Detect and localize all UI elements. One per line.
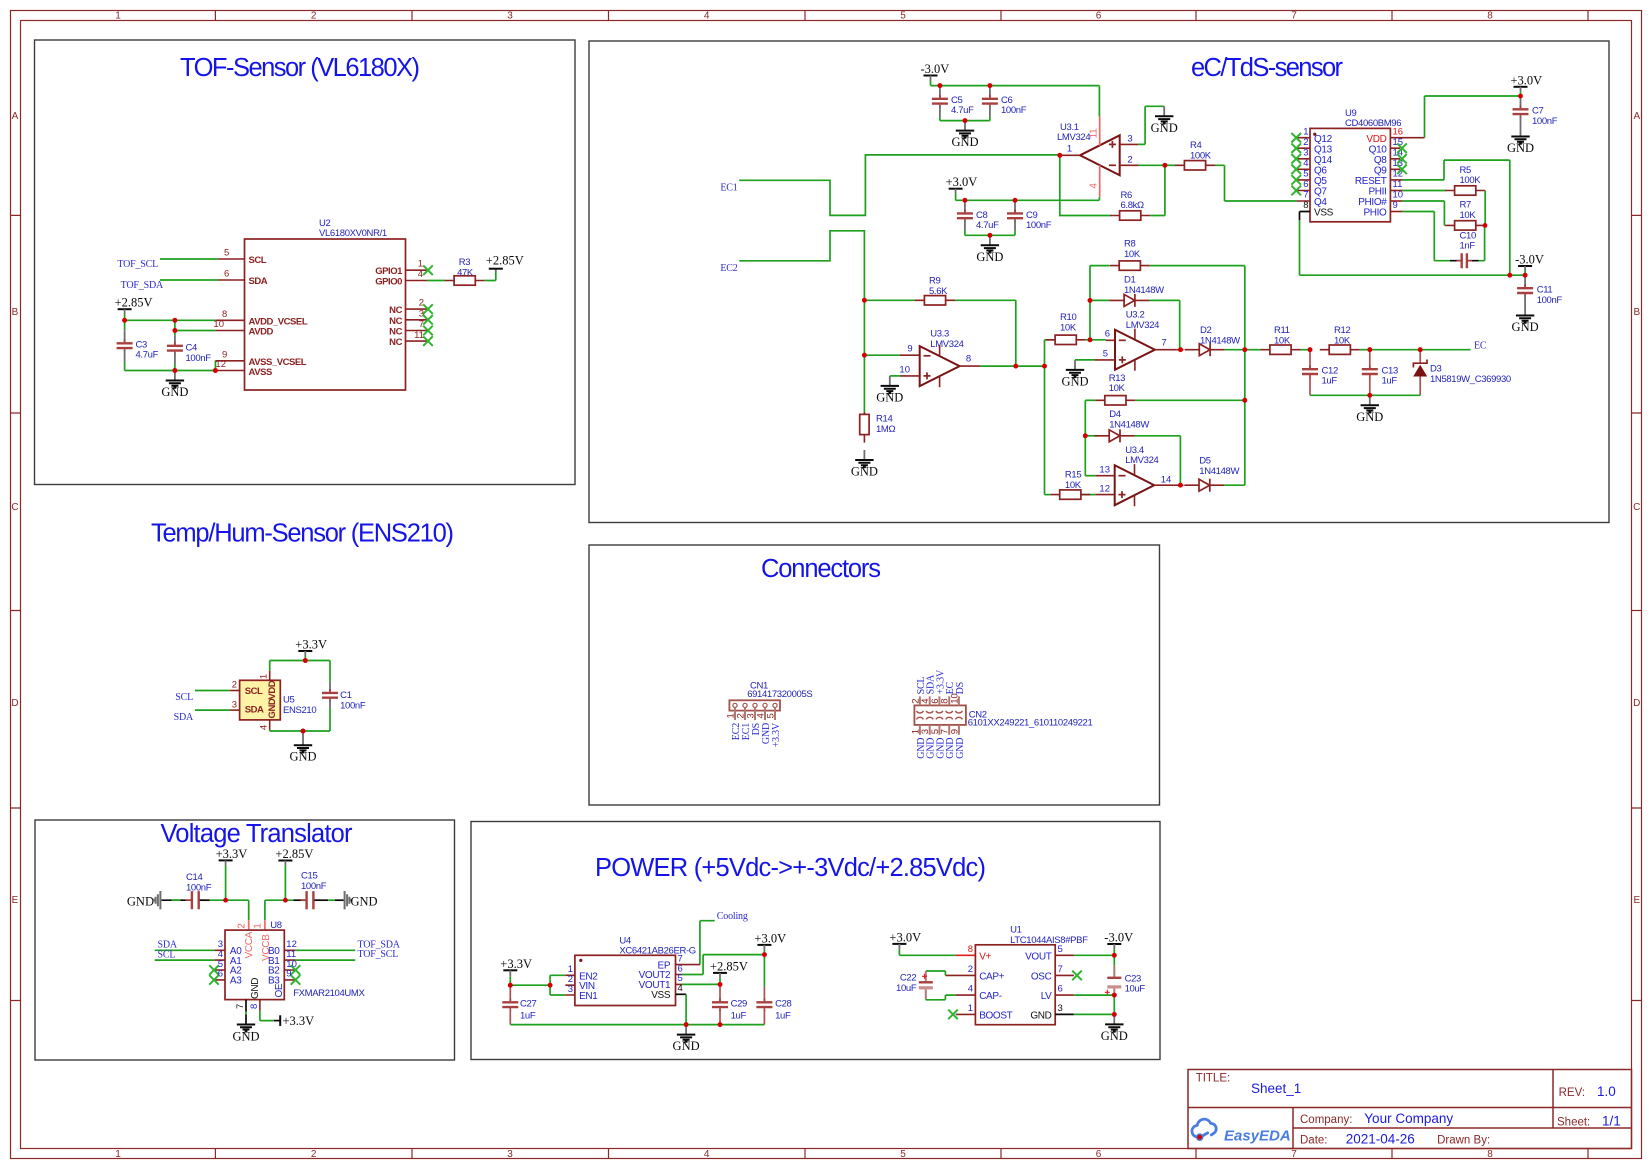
wire pin 9 U3.3 [864,354,899,356]
wire pin 9 riser [214,361,216,371]
wire filter ground bus [1310,394,1420,396]
junction dots U4 [508,952,767,1027]
svg-text:5: 5 [224,248,229,259]
op-amp U3.1 (mirrored, pointing left) [1080,135,1120,175]
svg-text:+3.0V: +3.0V [754,931,786,945]
svg-text:8: 8 [1303,200,1308,211]
capacitor C3 [124,320,126,330]
svg-text:D3: D3 [1430,364,1442,375]
wire VOUT2 to +3.0V [682,955,764,975]
svg-text:VL6180XV0NR/1: VL6180XV0NR/1 [319,228,387,239]
wire GPIO0 to R3 [427,280,445,282]
svg-text:+2.85V: +2.85V [710,959,748,973]
svg-text:C: C [11,502,18,513]
svg-text:2: 2 [311,1149,317,1160]
resistor R11 [1261,345,1301,354]
svg-text:7: 7 [235,1004,246,1009]
U4 left pin leads [565,975,575,995]
svg-text:AVSS: AVSS [249,367,272,378]
svg-text:BOOST: BOOST [979,1011,1012,1022]
U8 A-side pins 5,6 leads with X [215,970,225,980]
junction dots bottom [1083,398,1247,488]
resistor R5 [1445,186,1485,195]
ground symbol ENS [302,731,304,736]
svg-text:C14: C14 [186,872,202,883]
U3.3 pin 8 output lead [960,365,981,367]
svg-text:8: 8 [966,354,971,365]
U8 B-side pins 12,11 leads [284,950,295,960]
svg-text:EC1: EC1 [720,183,737,194]
svg-text:4.7uF: 4.7uF [976,220,999,231]
svg-text:C11: C11 [1537,285,1553,296]
junction dots -3.0V rail [938,83,993,123]
U5 pin 2 SCL lead [230,690,240,692]
svg-text:3: 3 [1303,148,1308,159]
svg-text:4: 4 [968,984,973,995]
U5 pin 3 SDA lead [230,709,240,711]
wire +2.85V rail to pin 8 [125,319,216,321]
ground symbol under C11 [1512,306,1539,335]
ground symbol under R14 [851,450,878,479]
resistor R12 [1320,345,1360,354]
svg-text:U3.1: U3.1 [1060,122,1079,133]
wire +3.0V rail to U3.1 pin4 [956,197,1100,200]
CN2 top pin numbers [910,693,960,704]
svg-text:D2: D2 [1200,325,1212,336]
U3.4 pin 12 lead [1095,494,1114,496]
wire main vertical U3.3 node [1044,340,1046,495]
svg-text:GND: GND [232,1030,259,1044]
U2 pin 9 AVSS_VCSEL lead [215,360,244,362]
svg-text:2: 2 [311,11,317,22]
U8 pin numbers left [218,939,223,980]
svg-text:GPIO0: GPIO0 [375,277,402,288]
diode D3 schottky (vertical) [1419,350,1421,363]
resistor R14 (vertical) [863,412,865,442]
wire EC2 node down to pin9 and R14 [863,300,865,414]
svg-text:691417320005S: 691417320005S [747,689,812,700]
U9 VSS pin 8 lead [1300,212,1311,221]
svg-text:9: 9 [286,969,291,980]
IC U4 XC6421AB26ER-G body [575,955,676,1005]
svg-text:8: 8 [1487,1149,1493,1160]
svg-text:R7: R7 [1460,200,1472,211]
svg-text:11: 11 [1393,179,1403,190]
svg-text:10K: 10K [1460,210,1477,221]
svg-text:+3.0V: +3.0V [1511,73,1543,87]
wire VDD to +3.0V [1425,96,1521,138]
svg-text:100K: 100K [1460,175,1482,186]
resistor R6 [1110,211,1150,220]
junction dots +3.0V rail [963,153,1168,238]
U1 LV pin 6 lead [1055,994,1074,996]
svg-text:GND: GND [1030,1011,1051,1022]
svg-text:6: 6 [218,969,223,980]
wire VSS to -3.0V rail [1300,220,1510,275]
wire R10 to pin6 junction [1086,339,1106,341]
svg-text:6: 6 [1096,11,1102,22]
power flag +3.0V PWR [757,944,771,946]
U3.1 pin 1 output lead [1060,154,1080,156]
U3.1 power pin 4 stub [1099,165,1101,197]
svg-text:1: 1 [968,1003,973,1014]
wire pin6 node up to R8 [1090,266,1110,340]
svg-text:3: 3 [507,1149,513,1160]
svg-text:2: 2 [1127,154,1132,165]
svg-text:PHIO: PHIO [1363,208,1387,219]
wire EN bracket [510,975,565,995]
svg-text:3: 3 [568,984,573,995]
svg-text:C29: C29 [731,998,747,1009]
U2 NC pins 2,3,7,11 leads [406,309,428,341]
svg-text:SDA: SDA [174,712,194,723]
ground symbol U4 [673,1025,700,1054]
svg-text:1MΩ: 1MΩ [876,424,895,435]
U1 V+ pin 8 lead [956,954,976,956]
wire TOF_SDA VT [295,949,355,951]
svg-text:POWER (+5Vdc->+-3Vdc/+2.85Vdc): POWER (+5Vdc->+-3Vdc/+2.85Vdc) [595,854,986,882]
svg-text:100nF: 100nF [1532,116,1558,127]
U3.4 pin 14 output lead [1154,484,1174,486]
U9 VDD pin 16 lead [1390,137,1424,139]
svg-text:5: 5 [766,713,777,718]
svg-text:TITLE:: TITLE: [1196,1073,1231,1085]
wire R4 to U9 pin7 [1215,165,1296,201]
wire TOF_SCL VT [295,959,355,961]
svg-text:2: 2 [1303,137,1308,148]
power flag +2.85V VT [278,860,292,862]
wire Cooling to EP [700,921,715,965]
svg-text:C8: C8 [976,210,988,221]
U3.3 minus sign [924,355,931,357]
CN1 pin circles [733,703,777,707]
IC U9 CD4060BM96 body [1310,128,1390,221]
svg-text:TOF_SDA: TOF_SDA [121,280,164,291]
power flag +3.3V PWR [503,969,517,971]
svg-text:+2.85V: +2.85V [486,254,524,268]
wire EC2 to R9/R14 node [739,231,864,301]
svg-text:VDD: VDD [267,680,278,699]
svg-text:C5: C5 [951,95,963,106]
wire to R10 [1045,339,1055,341]
svg-text:REV:: REV: [1559,1087,1585,1099]
svg-text:SCL: SCL [245,686,263,697]
wire D4 branch [1085,435,1098,437]
svg-text:FXMAR2104UMX: FXMAR2104UMX [293,988,365,999]
svg-text:R6: R6 [1121,190,1133,201]
resistor R3 [445,276,485,285]
wire junction to R4 [1165,164,1175,166]
U2 pin names right [375,266,403,348]
svg-text:LMV324: LMV324 [930,339,963,350]
svg-text:3: 3 [1058,1003,1063,1014]
junction dot C14 node [223,898,228,903]
wire R11 to C12 node [1301,349,1311,351]
svg-text:6: 6 [1058,984,1063,995]
wire D1 to output node [1149,300,1179,349]
svg-text:C1: C1 [340,690,352,701]
U3.1 pin 3 lead [1120,143,1138,145]
svg-text:10K: 10K [1060,323,1077,334]
wire +2.85V to pin1 [265,900,294,920]
wire R15 left corner [1045,494,1051,496]
wire PHIO# to R7 [1403,201,1446,225]
svg-text:4: 4 [1089,183,1100,189]
U8 pin 8 OE stub [259,1000,261,1011]
wire ENS bottom rail [270,730,330,731]
capacitor C13 [1369,350,1371,368]
svg-text:C15: C15 [301,871,317,882]
svg-text:VCCA: VCCA [244,931,255,958]
junction dots TOF [122,318,218,373]
section box Voltage Translator [35,820,455,1060]
section box TOF-Sensor [35,40,576,485]
svg-text:EN1: EN1 [579,991,598,1002]
svg-text:10: 10 [899,364,910,375]
U8 B-side pins 10,9 leads with X [284,970,295,980]
svg-text:Q5: Q5 [1314,176,1327,187]
U9 pins 15,14,13 leads with X [1390,148,1400,169]
U1 CAP- pin 4 lead [956,994,976,996]
svg-text:2: 2 [236,923,247,929]
svg-text:7: 7 [1161,337,1166,348]
capacitor C10 (horizontal) [1450,260,1479,262]
wire +3.3V to pin2 [226,900,249,920]
svg-text:PHII: PHII [1368,187,1386,198]
svg-text:Drawn By:: Drawn By: [1437,1135,1490,1147]
svg-text:U3.2: U3.2 [1126,310,1145,321]
svg-text:U4: U4 [619,935,631,946]
svg-text:4: 4 [704,1149,710,1160]
svg-text:100nF: 100nF [1026,220,1052,231]
ground flag right [345,891,352,909]
svg-text:SCL: SCL [158,950,176,961]
IC U8 FXMAR2104UMX body [225,930,284,1000]
section box POWER [471,822,1160,1060]
capacitor C29 [719,984,721,1001]
svg-text:+2.85V: +2.85V [115,296,153,310]
U3.1 plus sign pin3 [1109,141,1116,148]
U4 left pin numbers [568,964,573,995]
capacitor C6 [989,86,991,98]
svg-text:11: 11 [1089,128,1100,139]
wire R6 to pin2 junction [1150,165,1165,215]
svg-text:9: 9 [949,729,960,734]
power flag +3.0V top right [1514,86,1528,88]
svg-text:GND: GND [267,698,278,718]
no-connect X marks NC pins [423,304,433,314]
capacitor C14 (horizontal) [162,899,191,901]
svg-text:6101XX249221_610110249221: 6101XX249221_610110249221 [968,718,1093,729]
svg-text:OE: OE [274,983,285,997]
U3.2 plus sign [1119,356,1126,363]
svg-text:12: 12 [1099,484,1110,495]
svg-text:DS: DS [955,682,966,694]
wire SDA VT [155,949,215,951]
svg-text:Company:: Company: [1300,1114,1352,1126]
power flag -3.0V top [924,75,938,77]
wire R3 to +2.85V [485,272,496,281]
svg-text:R15: R15 [1065,470,1081,481]
svg-text:NC: NC [389,305,402,316]
resistor R15 [1050,490,1090,499]
wire SCL VT [155,959,215,961]
svg-text:100nF: 100nF [340,700,366,711]
svg-text:1: 1 [259,674,270,679]
svg-text:U5: U5 [283,694,295,705]
wire D5 to right vertical [1224,484,1245,486]
power flag +3.0V U1 [892,943,906,945]
svg-text:R10: R10 [1060,312,1076,323]
svg-text:5: 5 [900,1149,906,1160]
U8 pin 1 stub [264,920,266,930]
wire SCL [195,690,230,692]
svg-text:VDD: VDD [1366,134,1386,145]
U2 pin 10 AVDD lead [215,330,244,332]
svg-text:3: 3 [1127,134,1132,145]
capacitor C27 [509,985,511,1001]
svg-text:D4: D4 [1109,409,1121,420]
svg-text:1.0: 1.0 [1597,1084,1616,1099]
svg-text:U1: U1 [1010,925,1022,936]
EasyEDA logo cloud [1192,1119,1216,1139]
resistor R8 [1110,261,1150,270]
U9 left pin numbers [1303,126,1308,200]
svg-text:LMV324: LMV324 [1126,320,1159,331]
svg-text:SCL: SCL [249,255,267,266]
svg-text:+3.3V: +3.3V [771,722,782,747]
svg-text:U9: U9 [1345,108,1357,119]
svg-text:9: 9 [1393,200,1398,211]
svg-text:EasyEDA: EasyEDA [1224,1128,1291,1145]
wire R9 to U3.3 output node [955,300,1016,366]
svg-text:1N5819W_C369930: 1N5819W_C369930 [1430,374,1511,385]
U3.3 pin 9 lead [900,354,920,356]
svg-text:+2.85V: +2.85V [275,847,313,861]
svg-text:100nF: 100nF [1537,295,1563,306]
svg-text:7: 7 [1291,1149,1297,1160]
svg-text:12: 12 [215,359,226,370]
svg-text:14: 14 [1161,474,1172,485]
section box Connectors [589,545,1160,805]
svg-text:7: 7 [1058,964,1063,975]
svg-text:R8: R8 [1124,239,1136,250]
wire VOUT1 to +2.85V [682,983,720,985]
svg-text:+3.3V: +3.3V [500,957,532,971]
svg-text:-3.0V: -3.0V [921,62,950,76]
U2 pin 1 GPIO1 lead [406,269,428,271]
svg-text:1: 1 [1303,126,1308,137]
connector CN2 body [914,705,966,725]
svg-text:LV: LV [1041,991,1052,1002]
svg-text:NC: NC [389,327,402,338]
svg-text:1N4148W: 1N4148W [1200,335,1240,346]
wire R9 input [864,299,915,301]
svg-text:4: 4 [704,11,710,22]
svg-text:6.8kΩ: 6.8kΩ [1121,200,1145,211]
svg-text:13: 13 [1099,465,1110,476]
svg-text:16: 16 [1393,126,1404,137]
svg-text:6: 6 [1303,179,1308,190]
svg-text:R4: R4 [1190,140,1202,151]
CN1 net labels [731,722,782,747]
capacitor C12 [1309,350,1311,368]
svg-text:Q12: Q12 [1314,134,1333,145]
svg-text:E: E [1633,895,1640,906]
U9 pin 11 PHII lead [1390,190,1402,192]
svg-text:4.7uF: 4.7uF [951,105,974,116]
wire VOUT to -3.0V [1074,954,1114,956]
U1 OSC pin 7 lead with X [1055,974,1074,976]
svg-text:D5: D5 [1199,456,1211,467]
U2 pin 5 SCL lead [218,258,245,260]
svg-text:10K: 10K [1109,383,1126,394]
wire output to D5 [1174,484,1184,486]
svg-text:SDA: SDA [249,276,268,287]
svg-text:PHIO#: PHIO# [1358,197,1387,208]
U3.4 pin 13 lead [1095,475,1114,477]
section box eC/TdS-sensor [589,41,1609,523]
connector CN1 body [729,700,780,710]
svg-text:+3.3V: +3.3V [283,1014,315,1028]
svg-text:VSS: VSS [1314,208,1334,219]
svg-text:C23: C23 [1125,973,1141,984]
svg-text:R13: R13 [1109,373,1125,384]
wire output to D2 [1176,349,1183,351]
svg-text:ENS210: ENS210 [283,705,316,716]
svg-text:C4: C4 [186,343,198,354]
diode D2 [1185,343,1225,356]
ground symbol TOF [161,371,188,400]
wire feedback U3.1 pin1 to R6 [1060,155,1111,215]
ground symbol under C8 C9 [976,235,1003,263]
wire left vertical R13 D4 pin13 [1084,400,1086,475]
ground symbol U8 [232,1025,259,1044]
svg-text:C28: C28 [775,998,791,1009]
wire GND pin to ground [1074,1013,1114,1015]
svg-text:4: 4 [1303,158,1308,169]
U9 left no-connect X marks [1291,133,1301,143]
svg-text:Q7: Q7 [1314,187,1327,198]
svg-text:R3: R3 [459,257,471,268]
svg-text:1uF: 1uF [731,1011,747,1022]
svg-text:VSS: VSS [651,990,671,1001]
svg-text:1: 1 [115,1149,121,1160]
svg-text:1: 1 [115,11,121,22]
svg-text:EC2: EC2 [720,263,737,274]
svg-text:2: 2 [232,680,237,691]
diode D1 [1109,294,1149,307]
U3.2 pin 7 output lead [1155,349,1176,351]
CN2 top net labels [916,669,966,694]
ground symbol under C5 C6 [951,121,978,150]
svg-text:SDA: SDA [245,704,264,715]
svg-text:NC: NC [389,316,402,327]
svg-text:TOF_SCL: TOF_SCL [117,259,158,270]
svg-text:A: A [12,111,19,122]
svg-text:SCL: SCL [175,692,193,703]
svg-text:TOF_SCL: TOF_SCL [358,949,399,960]
U3.4 plus sign [1119,491,1126,498]
frame row ticks [11,215,1642,1000]
ground symbol filter [1356,395,1383,424]
U4 left pin names [579,971,598,1002]
svg-text:8: 8 [968,944,973,955]
svg-text:C27: C27 [520,998,536,1009]
svg-text:RESET: RESET [1355,176,1387,187]
wire pin10 to GND [890,375,900,377]
svg-text:+3.0V: +3.0V [889,930,921,944]
